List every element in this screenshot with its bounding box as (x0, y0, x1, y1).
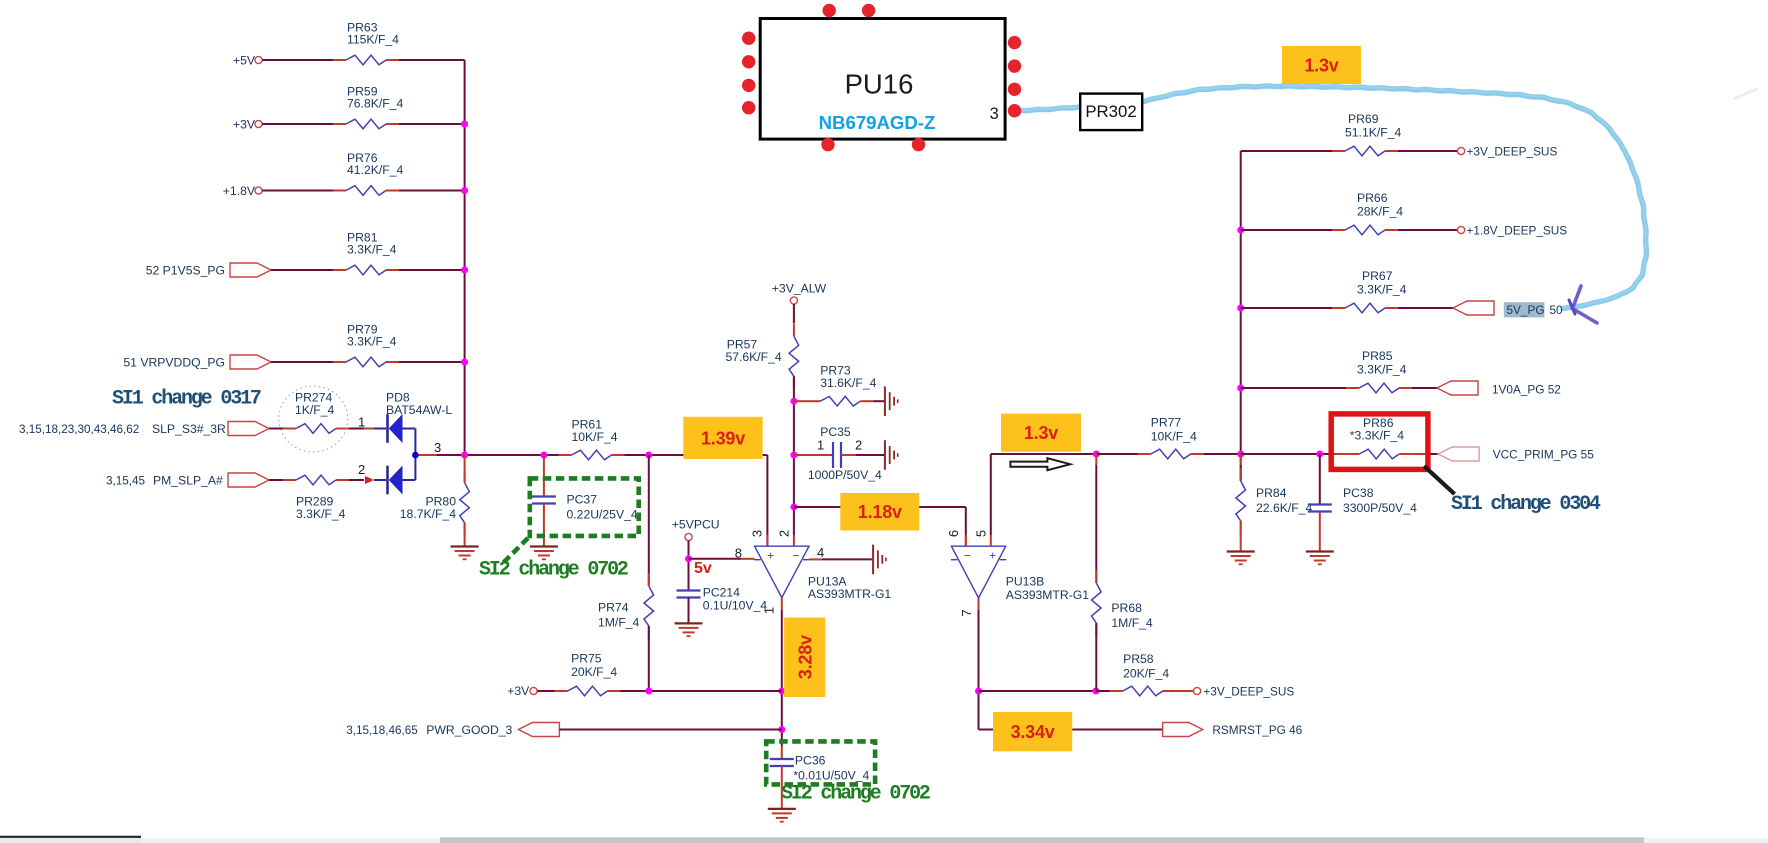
svg-text:+3V: +3V (507, 684, 530, 698)
svg-text:PR85: PR85 (1362, 349, 1393, 363)
svg-text:*0.01U/50V_4: *0.01U/50V_4 (793, 768, 869, 782)
svg-text:2: 2 (855, 438, 862, 453)
svg-text:1.18v: 1.18v (858, 502, 902, 522)
svg-text:3.3K/F_4: 3.3K/F_4 (1357, 283, 1407, 297)
svg-text:10K/F_4: 10K/F_4 (572, 430, 618, 444)
svg-text:PR58: PR58 (1123, 652, 1154, 666)
svg-text:1: 1 (358, 415, 365, 430)
svg-text:4: 4 (817, 545, 824, 560)
svg-text:20K/F_4: 20K/F_4 (1123, 667, 1169, 681)
svg-text:1.39v: 1.39v (701, 428, 745, 448)
svg-text:PR84: PR84 (1256, 486, 1287, 500)
svg-text:3,15,18,23,30,43,46,62: 3,15,18,23,30,43,46,62 (19, 423, 139, 436)
svg-text:3: 3 (990, 105, 999, 123)
svg-text:5: 5 (973, 530, 988, 537)
svg-text:3.28v: 3.28v (796, 635, 816, 679)
svg-text:PU13B: PU13B (1006, 574, 1045, 588)
svg-text:3: 3 (750, 530, 765, 537)
svg-text:18.7K/F_4: 18.7K/F_4 (400, 507, 456, 521)
svg-text:76.8K/F_4: 76.8K/F_4 (347, 97, 403, 111)
svg-text:51 VRPVDDQ_PG: 51 VRPVDDQ_PG (123, 355, 225, 369)
svg-text:SI1 change 0304: SI1 change 0304 (1451, 493, 1601, 516)
svg-text:3.3K/F_4: 3.3K/F_4 (296, 507, 346, 521)
svg-text:1K/F_4: 1K/F_4 (295, 403, 335, 417)
svg-text:115K/F_4: 115K/F_4 (347, 33, 399, 47)
svg-text:VCC_PRIM_PG 55: VCC_PRIM_PG 55 (1493, 447, 1594, 461)
svg-text:+3V_ALW: +3V_ALW (772, 281, 827, 295)
svg-text:+1.8V: +1.8V (223, 184, 256, 198)
svg-text:PWR_GOOD_3: PWR_GOOD_3 (426, 723, 512, 737)
svg-text:7: 7 (959, 609, 974, 616)
svg-text:SI2 change 0702: SI2 change 0702 (781, 783, 930, 806)
svg-text:0.1U/10V_4: 0.1U/10V_4 (703, 598, 768, 612)
svg-text:AS393MTR-G1: AS393MTR-G1 (808, 587, 892, 601)
svg-text:*3.3K/F_4: *3.3K/F_4 (1350, 428, 1404, 442)
svg-text:1M/F_4: 1M/F_4 (1111, 616, 1153, 630)
svg-text:PC37: PC37 (567, 493, 598, 507)
svg-text:+3V_DEEP_SUS: +3V_DEEP_SUS (1467, 145, 1558, 159)
svg-text:−: − (964, 549, 971, 563)
svg-text:PR69: PR69 (1348, 112, 1379, 126)
svg-text:3.3K/F_4: 3.3K/F_4 (347, 243, 397, 257)
svg-text:PR77: PR77 (1151, 416, 1182, 430)
svg-text:20K/F_4: 20K/F_4 (571, 665, 617, 679)
svg-text:8: 8 (735, 545, 742, 560)
svg-text:1000P/50V_4: 1000P/50V_4 (808, 468, 882, 482)
svg-text:57.6K/F_4: 57.6K/F_4 (725, 350, 781, 364)
svg-text:6: 6 (946, 530, 961, 537)
svg-text:PC214: PC214 (703, 585, 740, 599)
svg-text:1M/F_4: 1M/F_4 (598, 615, 640, 629)
svg-text:PC35: PC35 (820, 425, 851, 439)
svg-text:−: − (792, 549, 799, 563)
svg-text:PR75: PR75 (571, 651, 602, 665)
svg-text:+5V: +5V (233, 53, 256, 67)
svg-text:5v: 5v (694, 560, 712, 577)
svg-text:1V0A_PG 52: 1V0A_PG 52 (1492, 382, 1561, 396)
svg-text:31.6K/F_4: 31.6K/F_4 (820, 376, 876, 390)
svg-text:3.3K/F_4: 3.3K/F_4 (1357, 363, 1407, 377)
svg-text:AS393MTR-G1: AS393MTR-G1 (1006, 588, 1090, 602)
svg-text:1.3v: 1.3v (1024, 423, 1058, 443)
svg-text:PR66: PR66 (1357, 191, 1388, 205)
svg-text:+5VPCU: +5VPCU (672, 518, 720, 532)
svg-text:3.34v: 3.34v (1011, 722, 1055, 742)
svg-text:41.2K/F_4: 41.2K/F_4 (347, 163, 403, 177)
svg-text:PR68: PR68 (1111, 601, 1142, 615)
svg-text:1: 1 (762, 607, 777, 614)
svg-text:2: 2 (777, 530, 792, 537)
svg-text:+3V_DEEP_SUS: +3V_DEEP_SUS (1203, 685, 1294, 699)
svg-text:PC36: PC36 (795, 753, 826, 767)
svg-text:3300P/50V_4: 3300P/50V_4 (1343, 501, 1417, 515)
svg-text:0.22U/25V_4: 0.22U/25V_4 (567, 508, 638, 522)
svg-text:28K/F_4: 28K/F_4 (1357, 205, 1403, 219)
svg-text:SLP_S3#_3R: SLP_S3#_3R (152, 422, 226, 436)
svg-text:50: 50 (1550, 303, 1564, 317)
svg-text:SI1 change 0317: SI1 change 0317 (112, 388, 261, 411)
svg-text:2: 2 (358, 462, 365, 477)
svg-text:+: + (989, 549, 996, 563)
svg-text:3.3K/F_4: 3.3K/F_4 (347, 335, 397, 349)
svg-text:PM_SLP_A#: PM_SLP_A# (153, 474, 223, 488)
svg-text:PR302: PR302 (1085, 102, 1136, 121)
svg-text:RSMRST_PG 46: RSMRST_PG 46 (1212, 723, 1302, 737)
svg-text:22.6K/F_4: 22.6K/F_4 (1256, 501, 1312, 515)
svg-text:1.3v: 1.3v (1304, 55, 1338, 75)
svg-text:1: 1 (817, 438, 824, 453)
svg-text:3: 3 (434, 440, 441, 455)
svg-text:+1.8V_DEEP_SUS: +1.8V_DEEP_SUS (1467, 224, 1568, 238)
svg-text:+3V: +3V (233, 117, 256, 131)
svg-text:51.1K/F_4: 51.1K/F_4 (1345, 126, 1401, 140)
svg-text:PC38: PC38 (1343, 486, 1374, 500)
svg-text:BAT54AW-L: BAT54AW-L (386, 403, 452, 417)
svg-text:3,15,45: 3,15,45 (106, 475, 145, 488)
svg-text:+: + (767, 549, 774, 563)
svg-text:10K/F_4: 10K/F_4 (1151, 430, 1197, 444)
svg-text:5V_PG: 5V_PG (1507, 303, 1545, 317)
svg-text:3,15,18,46,65: 3,15,18,46,65 (346, 724, 418, 737)
svg-text:PU16: PU16 (845, 69, 914, 100)
svg-text:SI2 change 0702: SI2 change 0702 (479, 559, 628, 582)
svg-text:52 P1V5S_PG: 52 P1V5S_PG (146, 263, 225, 277)
svg-text:NB679AGD-Z: NB679AGD-Z (819, 112, 936, 133)
svg-text:PR67: PR67 (1362, 269, 1393, 283)
svg-text:PR74: PR74 (598, 601, 629, 615)
